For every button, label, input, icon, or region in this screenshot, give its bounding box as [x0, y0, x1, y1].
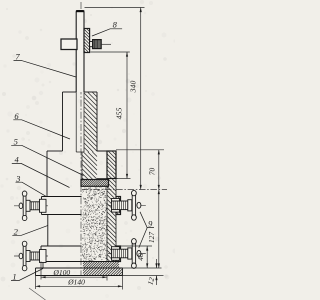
extension line from flange top [116, 149, 164, 151]
mould body left edge (item 2) [47, 215, 49, 247]
dimension 70 [148, 150, 160, 190]
rod (item 7) [76, 11, 84, 92]
clamp bolt left upper (item 9 family) [14, 191, 48, 221]
extension lines base plate right [123, 267, 162, 269]
extension line from rod top [85, 7, 145, 9]
mould outer wall right (hatched) [107, 151, 116, 262]
upper clamp ring (item 3) [42, 197, 121, 215]
punch plate (cross-hatched band), item 4 [81, 180, 109, 187]
svg-text:40: 40 [136, 253, 145, 261]
column wall hatching [82, 92, 97, 180]
clamp screw (right) [90, 40, 102, 49]
dimension 127 [147, 190, 160, 269]
dimension 340 [128, 8, 141, 190]
label 6 with leader [13, 111, 70, 139]
label 4 with leader [12, 155, 70, 188]
clamp bolt right lower (item 9) [108, 239, 146, 269]
lower clamp ring [41, 246, 121, 262]
centerline (vertical axis) [80, 2, 82, 276]
extension line from clamp sleeve bottom [91, 51, 130, 53]
moulding sand (stippled) [82, 187, 107, 261]
svg-text:4: 4 [14, 155, 19, 165]
extension line lower ring top [121, 245, 153, 247]
svg-text:Ø100: Ø100 [52, 268, 70, 277]
svg-text:3: 3 [15, 173, 20, 183]
dimension diameter 100 [41, 262, 107, 281]
svg-text:1: 1 [12, 272, 16, 282]
extension line from clamp screw axis [101, 43, 111, 45]
stray scan line bottom-left [29, 288, 46, 300]
bore bottom line [76, 151, 84, 153]
dimension 40 [136, 246, 148, 268]
svg-text:5: 5 [14, 136, 18, 146]
svg-text:8: 8 [113, 19, 118, 29]
svg-text:70: 70 [148, 168, 157, 176]
section boundary below bore [81, 152, 83, 180]
sand level dash-dot line [82, 189, 167, 191]
column body (item 6) [63, 92, 98, 180]
svg-text:455: 455 [114, 108, 123, 120]
svg-text:Ø140: Ø140 [67, 278, 85, 287]
svg-text:9: 9 [148, 219, 153, 229]
label 1 with leader [11, 269, 43, 282]
clamp jaw block (left) [61, 39, 77, 50]
mould flange top edge [47, 151, 116, 197]
base plate boss band [41, 262, 121, 269]
svg-text:2: 2 [14, 226, 19, 236]
dimension 455 [114, 52, 128, 179]
clamp bolt left lower [14, 241, 48, 271]
label 9 with two leaders [139, 212, 154, 248]
dimension 12 [145, 259, 157, 286]
annular gap bottom line [97, 178, 118, 180]
extension line flange bottom [118, 178, 131, 180]
dimension diameter 140 [36, 276, 123, 290]
label 5 with leader [11, 136, 83, 175]
clamp sleeve (hatched), item 8 assembly [84, 29, 90, 53]
base plate (item 1) [36, 268, 123, 276]
svg-text:127: 127 [147, 232, 156, 243]
label 8 with leader [92, 19, 122, 36]
clamp bolt right upper (item 9) [108, 190, 146, 220]
label 7 with leader [14, 52, 77, 77]
svg-text:340: 340 [128, 81, 137, 94]
label 3 with leader [15, 173, 47, 197]
flange outer wall (hatched) [107, 151, 116, 179]
label 2 with leader [12, 225, 48, 236]
